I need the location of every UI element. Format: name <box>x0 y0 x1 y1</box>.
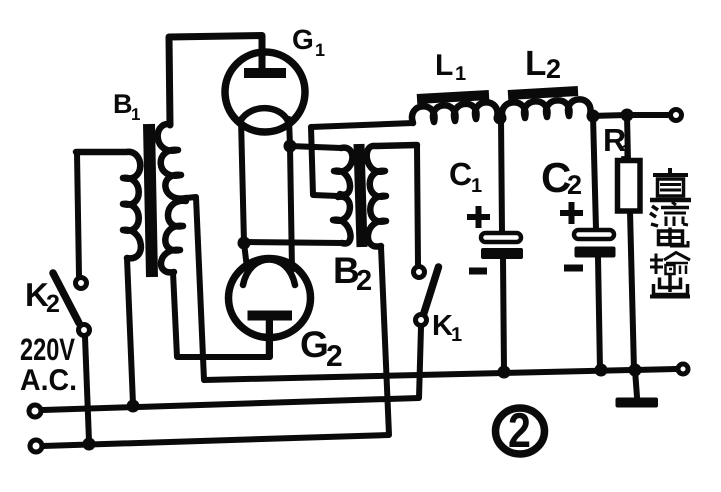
transformer B2 left winding bottom <box>333 197 351 244</box>
minus sign C1 <box>469 268 487 275</box>
tube G2 plate stem <box>266 318 273 356</box>
ground stem <box>635 370 637 397</box>
capacitor C1 bottom plate (solid) <box>481 248 523 259</box>
transformer B2 right winding <box>367 145 417 247</box>
wire K2 to AC bus 2 <box>85 337 89 441</box>
transformer B1 secondary top half <box>158 124 186 199</box>
wire B1 secondary bottom to G2 plate <box>173 272 270 357</box>
wire branch down to B2 primary centre tap <box>311 127 338 196</box>
minus sign C2 <box>564 265 583 272</box>
tube G2 cathode dome <box>243 260 295 286</box>
inductor L2 core bar <box>508 91 578 95</box>
junction dot L2/C2 <box>587 110 600 123</box>
tube G1 cathode dome <box>241 108 288 121</box>
capacitor C1 bottom lead <box>503 258 504 372</box>
svg-text:G: G <box>300 324 329 365</box>
wire cathode junction to B2 primary bottom <box>244 242 344 243</box>
resistor R1 top lead <box>627 115 628 161</box>
switch K2 bottom contact <box>79 325 90 336</box>
transformer B1 primary winding <box>76 152 141 259</box>
capacitor C2 top lead <box>593 116 596 229</box>
switch K2 lever <box>53 273 79 323</box>
tube G1 envelope <box>225 52 305 132</box>
inductor L1 core bar <box>417 95 489 99</box>
svg-text:C: C <box>449 156 472 192</box>
plus sign C1 <box>467 206 490 228</box>
wire B1 center tap to main DC bus <box>186 197 676 380</box>
AC input terminal 2 <box>30 440 42 452</box>
svg-text:L: L <box>525 44 546 83</box>
tube G2 envelope <box>229 259 311 338</box>
wire switch K1 to AC bus 1 <box>43 327 421 410</box>
char shu <box>655 254 658 275</box>
DC output terminal + <box>671 110 682 121</box>
figure number circled 2 <box>496 408 545 454</box>
junction dot cathodes <box>238 237 251 250</box>
wire rectifier output to L1 <box>311 123 413 127</box>
resistor R1 bottom lead <box>630 211 634 370</box>
svg-text:2: 2 <box>46 290 60 318</box>
svg-text:2: 2 <box>546 54 561 84</box>
char dian <box>659 231 683 245</box>
wire B2 right top to switch K1 <box>417 145 418 265</box>
switch K1 top contact <box>414 267 425 278</box>
capacitor C1 top plate (pill) <box>481 233 521 242</box>
junction dot L1/L2/C1 <box>494 112 507 125</box>
svg-text:B: B <box>113 89 133 119</box>
svg-text:G: G <box>292 24 314 55</box>
junction dot R1 top <box>621 109 634 122</box>
transformer B1 core <box>149 124 152 277</box>
junction dot cathode right <box>284 140 297 153</box>
DC output terminal - <box>678 364 688 374</box>
svg-text:1: 1 <box>620 142 631 163</box>
ground bar <box>616 398 659 408</box>
svg-text:L: L <box>435 49 453 82</box>
svg-text:2: 2 <box>508 404 531 458</box>
resistor R1 body <box>618 161 641 212</box>
transformer B2 left winding top <box>334 148 352 195</box>
switch K1 lever <box>423 267 439 316</box>
chinese label DC output (drawn strokes) <box>650 168 691 297</box>
wire G1 cathode left lead down to G2 <box>241 119 247 268</box>
svg-text:1: 1 <box>451 324 462 346</box>
svg-text:1: 1 <box>131 105 140 124</box>
junction dot R1 bottom / ground <box>629 364 642 377</box>
svg-text:1: 1 <box>471 175 482 197</box>
wire cathode to B2 primary top <box>290 146 341 148</box>
capacitor C2 top plate (pill) <box>574 230 614 239</box>
AC input terminal 1 <box>29 405 41 417</box>
transformer B1 secondary bottom half <box>161 201 186 273</box>
transformer B2 core <box>359 144 362 247</box>
wire B2 right bottom to AC bus 2 <box>43 247 389 446</box>
wire B1 primary top to switch K2 <box>77 153 79 276</box>
switch K2 top contact <box>76 278 87 289</box>
junction dot K2 / bus2 <box>83 438 96 451</box>
char chu <box>668 275 672 292</box>
tube G2 plate bar <box>248 311 293 321</box>
junction dot B1 primary / bus1 <box>127 400 140 413</box>
char zhi <box>668 168 672 177</box>
svg-text:2: 2 <box>356 265 372 297</box>
wire G1 cathode right lead down to G2 <box>289 119 292 270</box>
capacitor C2 bottom plate (solid) <box>575 247 616 258</box>
capacitor C1 top lead <box>501 118 502 232</box>
wire top loop B1 secondary top to G1 plate <box>169 36 262 126</box>
junction dot C2 bottom <box>595 364 608 377</box>
svg-text:K: K <box>432 310 453 342</box>
svg-text:220V: 220V <box>20 332 75 367</box>
svg-text:2: 2 <box>326 340 343 373</box>
inductor L2 winding <box>502 99 590 119</box>
inductor L1 winding <box>412 102 497 123</box>
char liu <box>650 206 658 226</box>
wire B1 primary bottom lead <box>127 258 133 404</box>
switch K1 bottom contact <box>416 315 427 326</box>
wire L2 to output terminal <box>590 115 668 116</box>
tube G1 plate bar <box>244 68 286 78</box>
svg-text:A.C.: A.C. <box>20 364 77 397</box>
svg-text:1: 1 <box>315 40 325 60</box>
capacitor C2 bottom lead <box>598 257 600 370</box>
plus sign C2 <box>560 202 583 224</box>
svg-text:1: 1 <box>455 63 466 85</box>
junction dot C1 bottom <box>498 366 511 379</box>
svg-text:2: 2 <box>567 170 582 200</box>
